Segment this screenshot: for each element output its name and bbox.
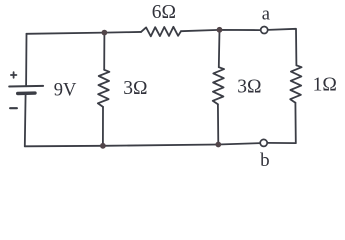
svg-text:b: b	[260, 150, 270, 171]
svg-text:9V: 9V	[54, 81, 77, 101]
svg-text:3Ω: 3Ω	[123, 78, 147, 99]
svg-text:6Ω: 6Ω	[152, 2, 176, 23]
svg-text:3Ω: 3Ω	[237, 76, 261, 97]
svg-text:a: a	[262, 5, 270, 25]
svg-text:1Ω: 1Ω	[313, 74, 337, 95]
